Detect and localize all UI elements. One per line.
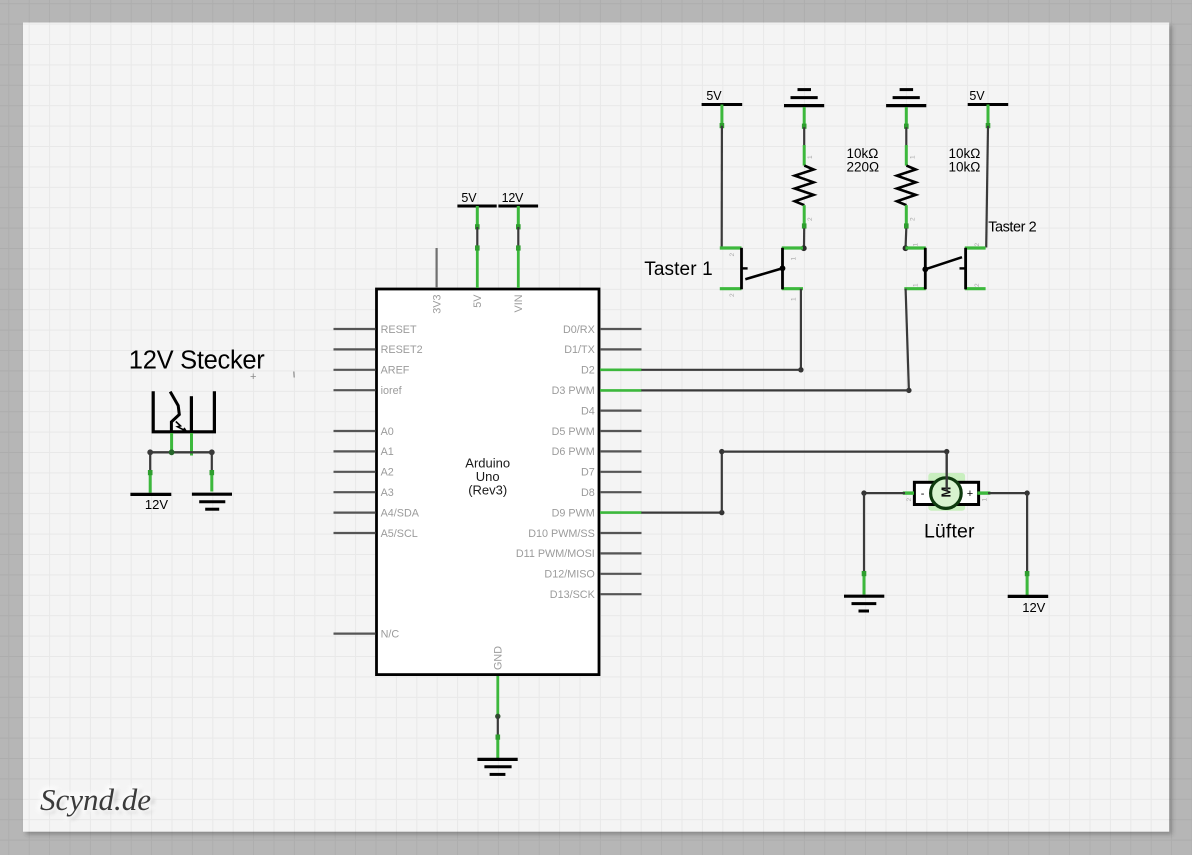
svg-text:Lüfter: Lüfter bbox=[924, 521, 975, 543]
S1 right contact post bbox=[781, 248, 784, 289]
svg-text:2: 2 bbox=[974, 283, 981, 287]
S1 actuator tick bbox=[742, 267, 748, 269]
wire 5V to taster 2 pad bbox=[986, 126, 988, 248]
wire D9 to fan bbox=[641, 449, 949, 515]
ground symbol (fan minus) bbox=[844, 596, 884, 611]
pin D4 stub bbox=[600, 410, 642, 412]
arduino pin label GND bottom bbox=[493, 646, 505, 670]
svg-text:Scynd.de: Scynd.de bbox=[40, 782, 151, 817]
resistor values label 10k/220 bbox=[847, 146, 880, 175]
svg-text:3V3: 3V3 bbox=[431, 295, 443, 314]
svg-text:D10 PWM/SS: D10 PWM/SS bbox=[528, 528, 595, 540]
label 12V Stecker bbox=[129, 346, 265, 374]
pin GND stub (connected) bbox=[496, 676, 499, 716]
svg-text:5V: 5V bbox=[461, 191, 477, 205]
wire fan- to ground bbox=[861, 490, 905, 594]
taster S2 switch symbol bbox=[904, 243, 985, 290]
wire 5V to taster 1 pad bbox=[721, 126, 723, 248]
svg-text:1: 1 bbox=[913, 283, 920, 287]
power symbol 5V (taster 2) bbox=[968, 89, 1009, 128]
pin D13 stub bbox=[600, 593, 642, 595]
pin N/C stub bbox=[334, 632, 376, 634]
svg-text:2: 2 bbox=[909, 217, 916, 221]
power symbol 5V (taster 1) bbox=[702, 89, 743, 128]
svg-text:D2: D2 bbox=[581, 365, 595, 377]
arduino pin labels left bbox=[381, 324, 423, 641]
wire R1 to taster1 pad with junction bbox=[801, 228, 807, 251]
svg-text:5V: 5V bbox=[969, 89, 985, 103]
pin D1/TX stub bbox=[600, 348, 642, 350]
motor M1 Luefter bbox=[903, 473, 991, 511]
wire arduino GND to ground bbox=[495, 714, 500, 759]
svg-text:VIN: VIN bbox=[513, 295, 525, 313]
wire bus below connector bbox=[147, 449, 214, 455]
pin RESET stub bbox=[334, 328, 376, 330]
wire 12V supply to arduino VIN pin bbox=[516, 227, 521, 251]
svg-text:5V: 5V bbox=[706, 89, 722, 103]
svg-text:N/C: N/C bbox=[381, 628, 400, 640]
connector J1 barrel jack symbol bbox=[153, 391, 214, 432]
S1 pad bottom-left bbox=[720, 287, 742, 290]
label Taster 1 bbox=[644, 259, 713, 280]
selection mark tick bbox=[293, 372, 295, 378]
svg-text:1: 1 bbox=[791, 257, 798, 261]
pin 3V3 stub bbox=[436, 248, 438, 288]
arduino pin labels right bbox=[516, 324, 596, 601]
pin D12 stub bbox=[600, 573, 642, 575]
svg-text:1: 1 bbox=[982, 498, 989, 502]
svg-text:D3 PWM: D3 PWM bbox=[552, 385, 595, 397]
svg-text:A0: A0 bbox=[381, 426, 394, 438]
pin ioref stub bbox=[334, 389, 376, 391]
svg-text:D6 PWM: D6 PWM bbox=[552, 446, 595, 458]
svg-text:A5/SCL: A5/SCL bbox=[381, 528, 418, 540]
svg-text:D13/SCK: D13/SCK bbox=[550, 589, 596, 601]
svg-text:2: 2 bbox=[729, 253, 736, 257]
pin AREF stub bbox=[334, 369, 376, 371]
S1 pad top-left bbox=[720, 246, 742, 249]
pin D2 stub (connected) bbox=[600, 368, 642, 371]
label Luefter bbox=[924, 521, 975, 543]
svg-text:ioref: ioref bbox=[381, 385, 403, 397]
wire taster2 to D3 bbox=[641, 289, 911, 393]
svg-text:D9 PWM: D9 PWM bbox=[552, 507, 595, 519]
svg-text:D7: D7 bbox=[581, 467, 595, 479]
svg-text:220Ω: 220Ω bbox=[847, 159, 880, 174]
svg-text:D1/TX: D1/TX bbox=[564, 344, 595, 356]
taster S1 switch symbol bbox=[720, 248, 803, 301]
S1 left contact post bbox=[740, 248, 743, 289]
pin D7 stub bbox=[600, 471, 642, 473]
S1 pad bottom-right bbox=[782, 287, 803, 290]
svg-text:1: 1 bbox=[807, 155, 814, 159]
pin 5V stub (connected) bbox=[476, 248, 479, 289]
pin D6 stub bbox=[600, 450, 642, 452]
pin A4/SDA stub bbox=[334, 511, 376, 513]
svg-text:2: 2 bbox=[729, 293, 736, 297]
svg-text:AREF: AREF bbox=[381, 365, 410, 377]
label Taster 2 bbox=[988, 220, 1036, 236]
svg-text:Taster 2: Taster 2 bbox=[988, 220, 1036, 236]
svg-text:D5 PWM: D5 PWM bbox=[552, 426, 595, 438]
pin D5 stub bbox=[600, 430, 642, 432]
svg-text:5V: 5V bbox=[472, 294, 484, 308]
svg-text:1: 1 bbox=[913, 243, 920, 247]
svg-text:D11 PWM/MOSI: D11 PWM/MOSI bbox=[516, 548, 595, 560]
svg-text:A1: A1 bbox=[381, 446, 394, 458]
svg-text:RESET2: RESET2 bbox=[381, 344, 423, 356]
svg-text:2: 2 bbox=[906, 498, 913, 502]
pin A3 stub bbox=[334, 491, 376, 493]
resistor R2 (pullup) bbox=[897, 145, 916, 229]
wire ground to R1 pin1 bbox=[803, 127, 805, 145]
wire to ground (stecker) bbox=[210, 452, 215, 491]
pin D8 stub bbox=[600, 491, 642, 493]
svg-text:(Rev3): (Rev3) bbox=[468, 483, 507, 498]
watermark Scynd.de bbox=[40, 782, 154, 819]
resistor values label 10k/10k bbox=[949, 146, 981, 175]
svg-text:12V Stecker: 12V Stecker bbox=[129, 346, 265, 374]
arduino U1 body bbox=[377, 289, 600, 675]
pin A1 stub bbox=[334, 450, 376, 452]
wire taster1 to D2 bbox=[641, 289, 803, 373]
resistor R1 (pullup) bbox=[795, 145, 814, 229]
pin VIN stub (connected) bbox=[517, 248, 520, 289]
S1 lever bbox=[745, 268, 782, 279]
pin D0/RX stub bbox=[600, 328, 642, 330]
svg-text:+: + bbox=[250, 371, 256, 383]
connector pin 2 (sleeve) bbox=[190, 433, 193, 456]
svg-text:A4/SDA: A4/SDA bbox=[381, 507, 420, 519]
power symbol 12V (top of arduino) bbox=[498, 191, 538, 230]
wire R2 to taster2 pad with junction bbox=[903, 228, 909, 251]
pin RESET2 stub bbox=[334, 348, 376, 350]
ground symbol (above R2, inverted) bbox=[886, 90, 926, 129]
svg-text:-: - bbox=[921, 488, 925, 500]
S1 lever pivot bbox=[780, 265, 786, 271]
pin D11 stub bbox=[600, 552, 642, 554]
ground symbol (stecker) bbox=[192, 494, 232, 509]
svg-text:GND: GND bbox=[493, 646, 505, 670]
wire ground to R2 pin1 bbox=[905, 127, 907, 145]
svg-text:RESET: RESET bbox=[381, 324, 417, 336]
svg-text:12V: 12V bbox=[1022, 600, 1045, 615]
ground symbol (arduino) bbox=[477, 759, 517, 774]
svg-text:D12/MISO: D12/MISO bbox=[544, 569, 594, 581]
arduino pin labels top bbox=[431, 294, 525, 314]
pin A0 stub bbox=[334, 430, 376, 432]
ground symbol (above R1, inverted) bbox=[784, 90, 824, 129]
pin D9 stub (connected) bbox=[600, 511, 642, 514]
svg-text:12V: 12V bbox=[145, 497, 168, 512]
svg-text:12V: 12V bbox=[502, 191, 524, 205]
power symbol 5V (top of arduino) bbox=[457, 191, 496, 230]
wire 5V supply to arduino 5V pin bbox=[475, 227, 480, 251]
svg-text:D4: D4 bbox=[581, 405, 595, 417]
arduino title text bbox=[465, 456, 510, 498]
svg-text:10kΩ: 10kΩ bbox=[949, 159, 981, 174]
pin A2 stub bbox=[334, 471, 376, 473]
power symbol 12V (stecker) bbox=[130, 494, 171, 512]
pin D10 stub bbox=[600, 532, 642, 534]
svg-text:D8: D8 bbox=[581, 487, 595, 499]
svg-text:+: + bbox=[967, 488, 973, 500]
svg-text:2: 2 bbox=[807, 217, 814, 221]
connector pin 1 (tip) bbox=[170, 433, 173, 452]
svg-text:D0/RX: D0/RX bbox=[563, 324, 595, 336]
power symbol 12V (fan) bbox=[1008, 596, 1048, 614]
wire to 12V supply bbox=[148, 452, 153, 493]
pin D3 stub (connected) bbox=[600, 389, 642, 392]
svg-text:1: 1 bbox=[791, 297, 798, 301]
wire fan+ to 12V bbox=[988, 490, 1030, 595]
selection mark plus bbox=[250, 371, 256, 383]
svg-text:A2: A2 bbox=[381, 467, 394, 479]
pin A5/SCL stub bbox=[334, 532, 376, 534]
svg-text:A3: A3 bbox=[381, 487, 394, 499]
svg-text:1: 1 bbox=[909, 155, 916, 159]
svg-text:Taster 1: Taster 1 bbox=[644, 259, 713, 280]
svg-text:2: 2 bbox=[974, 243, 981, 247]
S1 pad top-right bbox=[782, 246, 803, 249]
